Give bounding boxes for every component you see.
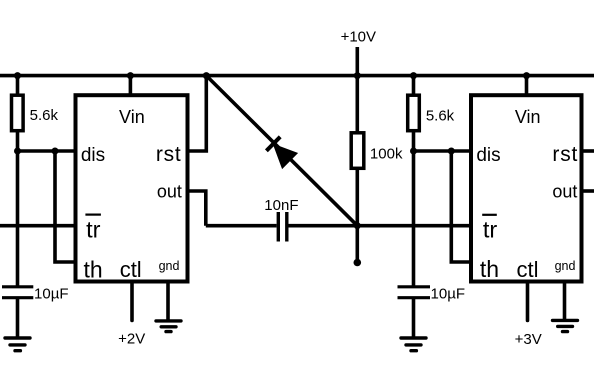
wire ctl2 [526,283,530,321]
svg-text:+10V: +10V [341,28,376,45]
resistor R1 5.6k left [12,95,24,131]
svg-text:out: out [157,182,182,202]
node output terminal [354,259,362,267]
wire C2 to ground [412,299,416,338]
wire R2 top [412,76,416,96]
capacitor C1 10uF plates [2,287,33,298]
node rail-diode [203,72,210,79]
svg-text:ctl: ctl [120,257,142,282]
node rail-Vin2 [523,72,530,79]
wire out2 stub [582,189,594,193]
node rail-Vin1 [127,72,134,79]
wire +10V stub [355,47,359,76]
wire th2 [451,151,472,262]
diode D1 cathode bar [266,137,280,151]
ground under gnd2 [553,320,578,331]
node dis2-R2 [410,148,417,155]
wire rst2 stub [582,149,594,153]
node dis2-th2 [448,148,455,155]
svg-text:10nF: 10nF [264,197,298,214]
svg-text:rst: rst [156,143,182,166]
wire R1 top [16,76,20,96]
wire R2 bottom to C2 [412,130,416,286]
wire C3 to node [289,224,358,228]
resistor R3 100k [351,133,364,169]
svg-text:gnd: gnd [159,259,180,273]
IC U1 555 box [76,95,188,281]
node rail-R2 [410,72,417,79]
wire th1 [55,151,77,262]
pin tr U2 overline [482,214,497,216]
svg-text:Vin: Vin [515,107,541,127]
svg-text:dis: dis [476,145,500,166]
wire C1 to ground [16,299,20,338]
wire gnd1 [166,283,170,321]
wire out1 to C3 [206,224,277,228]
node rail-100k [354,72,361,79]
wire R1 bottom to C1 [16,130,20,286]
wire tr1 [0,224,77,228]
wire out1 elbow [186,191,206,226]
pin tr U1 overline [85,214,101,216]
wire dis1 [16,149,77,153]
wire Vin2 [525,76,529,97]
svg-text:10µF: 10µF [34,285,69,302]
svg-text:100k: 100k [370,146,403,163]
svg-text:tr: tr [86,217,101,243]
resistor R2 5.6k right [408,95,420,131]
wire node to tr2 [357,224,472,228]
capacitor C2 10uF plates [398,287,431,298]
capacitor C3 10nF plates [278,212,287,242]
svg-text:dis: dis [81,145,105,166]
svg-text:+3V: +3V [515,331,542,348]
node diode-100k [354,222,361,229]
svg-text:10µF: 10µF [431,285,466,302]
diode D1 arrowhead [274,145,296,167]
svg-text:tr: tr [483,217,498,243]
wire rst1 to rail [186,76,206,151]
svg-text:rst: rst [552,143,578,166]
wire dis2 [412,149,473,153]
svg-text:5.6k: 5.6k [426,108,455,125]
wire Vin1 [129,76,133,97]
wire 100k top [355,76,359,134]
svg-text:th: th [84,256,103,282]
wire ctl1 [130,283,134,321]
diode D1 line [206,76,357,226]
node dis1-th1 [52,148,59,155]
svg-text:+2V: +2V [118,331,145,348]
ground under C1 [5,338,30,351]
svg-text:out: out [552,182,577,202]
svg-text:th: th [480,256,499,282]
wire gnd2 [563,283,567,320]
svg-text:Vin: Vin [119,107,145,127]
node rail-R1 [14,72,21,79]
ground under gnd1 [156,321,181,332]
node dis1-R1 [14,148,21,155]
svg-text:ctl: ctl [517,257,539,282]
wire +V rail [0,74,594,78]
IC U2 555 box [471,95,582,281]
ground under C2 [401,338,426,351]
wire 100k bottom [355,167,359,226]
wire output node stub [355,226,359,260]
svg-text:gnd: gnd [555,259,576,273]
svg-text:5.6k: 5.6k [30,107,59,124]
